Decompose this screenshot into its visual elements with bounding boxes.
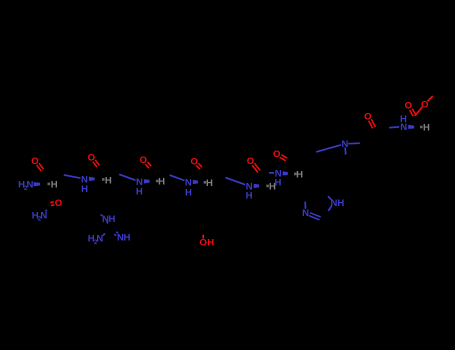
- bond C-alpha5 to carbonyl C5: [262, 179, 265, 186]
- bond C-alpha1 to C-beta1: [44, 184, 47, 190]
- bond C-alpha4 to C-beta4: [200, 182, 203, 188]
- double bond C5=O5: [256, 166, 260, 171]
- bond C-alpha6 to carbonyl C6: [290, 167, 293, 174]
- amide bond C3 to N4: [151, 168, 170, 175]
- svg-text:O: O: [405, 101, 413, 112]
- svg-text:O: O: [55, 198, 63, 209]
- double bond guanidine C=NH: [109, 230, 114, 234]
- svg-text:O: O: [190, 156, 198, 167]
- double bond C3=O3: [148, 163, 151, 166]
- svg-text:H: H: [296, 170, 303, 181]
- svg-text:H: H: [108, 214, 115, 225]
- double bond C4=O4: [199, 164, 202, 167]
- svg-text:H: H: [51, 179, 58, 190]
- amide bond C4 to N5: [202, 169, 226, 178]
- phenol ring bond 5: [191, 221, 193, 228]
- proline bond N7 to C-alpha7: [348, 142, 360, 145]
- wedge bond N6 to C-alpha6: [283, 171, 289, 175]
- svg-text:N: N: [302, 208, 309, 219]
- wedge bond N5 to C-alpha5: [254, 184, 260, 188]
- phenol ring inner double 3: [194, 213, 198, 215]
- bond C-alpha2 to C-beta2: [97, 179, 101, 185]
- amide bond C5 to N6: [260, 172, 269, 174]
- svg-text:O: O: [247, 156, 255, 167]
- phenyl ring bond 3: [425, 172, 431, 175]
- bond C-alpha1 to carbonyl C1: [45, 177, 47, 184]
- bond C-alpha5 to C-beta5: [261, 186, 264, 192]
- stereo H wedge mark C-alpha4: [204, 181, 207, 184]
- svg-text:O: O: [421, 99, 429, 110]
- double bond C2=O2: [96, 161, 99, 165]
- svg-text:O: O: [31, 156, 39, 167]
- bond C-delta2 to NH (Arg): [96, 211, 101, 215]
- phenol ring inner double 2: [199, 229, 203, 231]
- svg-text:H: H: [185, 188, 192, 199]
- bond C-beta6 to imidazole C4: [297, 188, 301, 189]
- svg-text:O: O: [273, 149, 281, 160]
- bond C-beta4 to phenol ring: [197, 195, 200, 202]
- bond C-alpha2 to carbonyl C2: [99, 173, 102, 179]
- wedge bond N2 to C-alpha2: [89, 177, 95, 181]
- imidazole bond C4-N3: [304, 190, 306, 201]
- bond C-gamma2 to C-delta2: [99, 201, 102, 206]
- phenyl ring inner double 1: [428, 160, 430, 165]
- bond C-alpha3 to C-beta3: [152, 181, 155, 187]
- svg-text:H: H: [136, 186, 143, 197]
- svg-text:H: H: [81, 184, 88, 195]
- wedge bond N3 to C-alpha3: [144, 179, 150, 183]
- imidazole double bond N3=C2: [309, 216, 314, 218]
- stereo H wedge mark C-alpha8: [420, 126, 423, 129]
- bond C-beta1 to amide C: [42, 196, 46, 200]
- bond guanidine C to H2N: [105, 229, 110, 234]
- double bond amide C=O (Asn): [51, 204, 54, 207]
- svg-text:O: O: [88, 153, 96, 164]
- double bond C1=O1: [40, 165, 43, 169]
- bond C-beta5 to methyl 2: [258, 198, 260, 204]
- phenyl ring bond 6: [408, 155, 414, 158]
- imidazole bond N1-C5: [328, 196, 331, 200]
- proline bond N7 to C-delta: [344, 148, 347, 155]
- svg-text:O: O: [364, 111, 372, 122]
- double bond C7=O7: [373, 122, 376, 127]
- bond C-alpha4 to carbonyl C4: [202, 176, 205, 183]
- svg-text:H: H: [123, 233, 130, 244]
- bond C-alpha8 to ester C8: [418, 122, 421, 128]
- phenyl ring bond 2: [430, 158, 432, 165]
- imidazole bond C2-N1: [323, 211, 329, 219]
- bond C-beta5 to methyl: [252, 196, 259, 198]
- phenol ring bond 2: [214, 214, 216, 221]
- svg-text:H: H: [105, 175, 112, 186]
- stereo H wedge mark C-alpha1: [48, 183, 51, 186]
- svg-text:H: H: [423, 122, 430, 133]
- amide bond C2 to N3: [99, 167, 119, 174]
- stereo H wedge mark C-alpha6: [294, 173, 297, 176]
- svg-text:H: H: [275, 177, 282, 188]
- svg-text:H: H: [207, 238, 214, 249]
- phenol ring bond 1: [203, 208, 209, 211]
- bond NH to guanidine C: [106, 222, 109, 224]
- svg-text:N: N: [40, 211, 47, 222]
- bond amide C to NH2 (Asn): [47, 204, 50, 209]
- proline ring bond C-delta to C-gamma: [347, 166, 354, 174]
- phenyl ring inner double 2: [415, 173, 419, 175]
- phenyl ring inner double 3: [411, 157, 415, 159]
- svg-text:N: N: [341, 139, 348, 150]
- double bond C6=O6: [283, 156, 287, 159]
- bond C-alpha7 to carbonyl C7: [374, 136, 376, 143]
- stereo H wedge mark C-alpha2: [102, 178, 105, 181]
- bond C-alpha3 to carbonyl C3: [153, 175, 155, 181]
- bond C-beta3 to methyl: [143, 192, 150, 194]
- amide bond C6 to proline N7: [288, 152, 317, 160]
- amide bond C7 to N8: [375, 128, 390, 129]
- proline ring bond C-beta to C-alpha7: [377, 155, 379, 167]
- bond C-beta2 to C-gamma2: [94, 191, 98, 196]
- svg-text:N: N: [400, 122, 407, 133]
- amide bond C1 to N2: [43, 171, 64, 175]
- wedge bond N4 to C-alpha4: [193, 180, 198, 184]
- phenol ring bond 3: [209, 228, 215, 231]
- svg-text:H: H: [246, 191, 253, 202]
- svg-text:O: O: [140, 155, 148, 166]
- svg-text:H: H: [337, 198, 344, 209]
- ester bond O to methyl: [427, 100, 428, 101]
- bond C-beta8 to phenyl ring: [413, 140, 416, 146]
- phenyl ring bond 5: [407, 165, 409, 172]
- svg-text:H: H: [206, 178, 213, 189]
- bond phenol ring to OH: [202, 235, 204, 239]
- proline ring bond C-gamma to C-beta: [360, 174, 370, 181]
- stereo H wedge mark C-alpha5: [266, 185, 269, 188]
- wedge bond N8 to C-alpha8: [408, 125, 414, 129]
- ester bond C8 to O: [415, 110, 420, 116]
- ester double bond C8=O: [413, 110, 416, 115]
- phenyl ring bond 1: [420, 152, 426, 155]
- bond C-alpha8 to C-beta8: [417, 127, 421, 133]
- stereo H wedge mark C-alpha3: [156, 180, 159, 183]
- svg-text:H: H: [158, 177, 165, 188]
- wedge bond N-terminus to C-alpha1: [34, 182, 41, 186]
- bond C-alpha6 to C-beta6: [293, 174, 295, 181]
- phenol ring inner double 1: [212, 216, 214, 221]
- bond C-beta3 to methyl 2: [149, 193, 151, 199]
- phenol ring bond 6: [192, 211, 198, 214]
- phenyl ring bond 4: [414, 175, 420, 178]
- imidazole double bond C5=C4: [313, 187, 321, 189]
- svg-text:N: N: [96, 234, 103, 245]
- phenol ring bond 4: [197, 231, 203, 234]
- svg-text:N: N: [27, 179, 34, 190]
